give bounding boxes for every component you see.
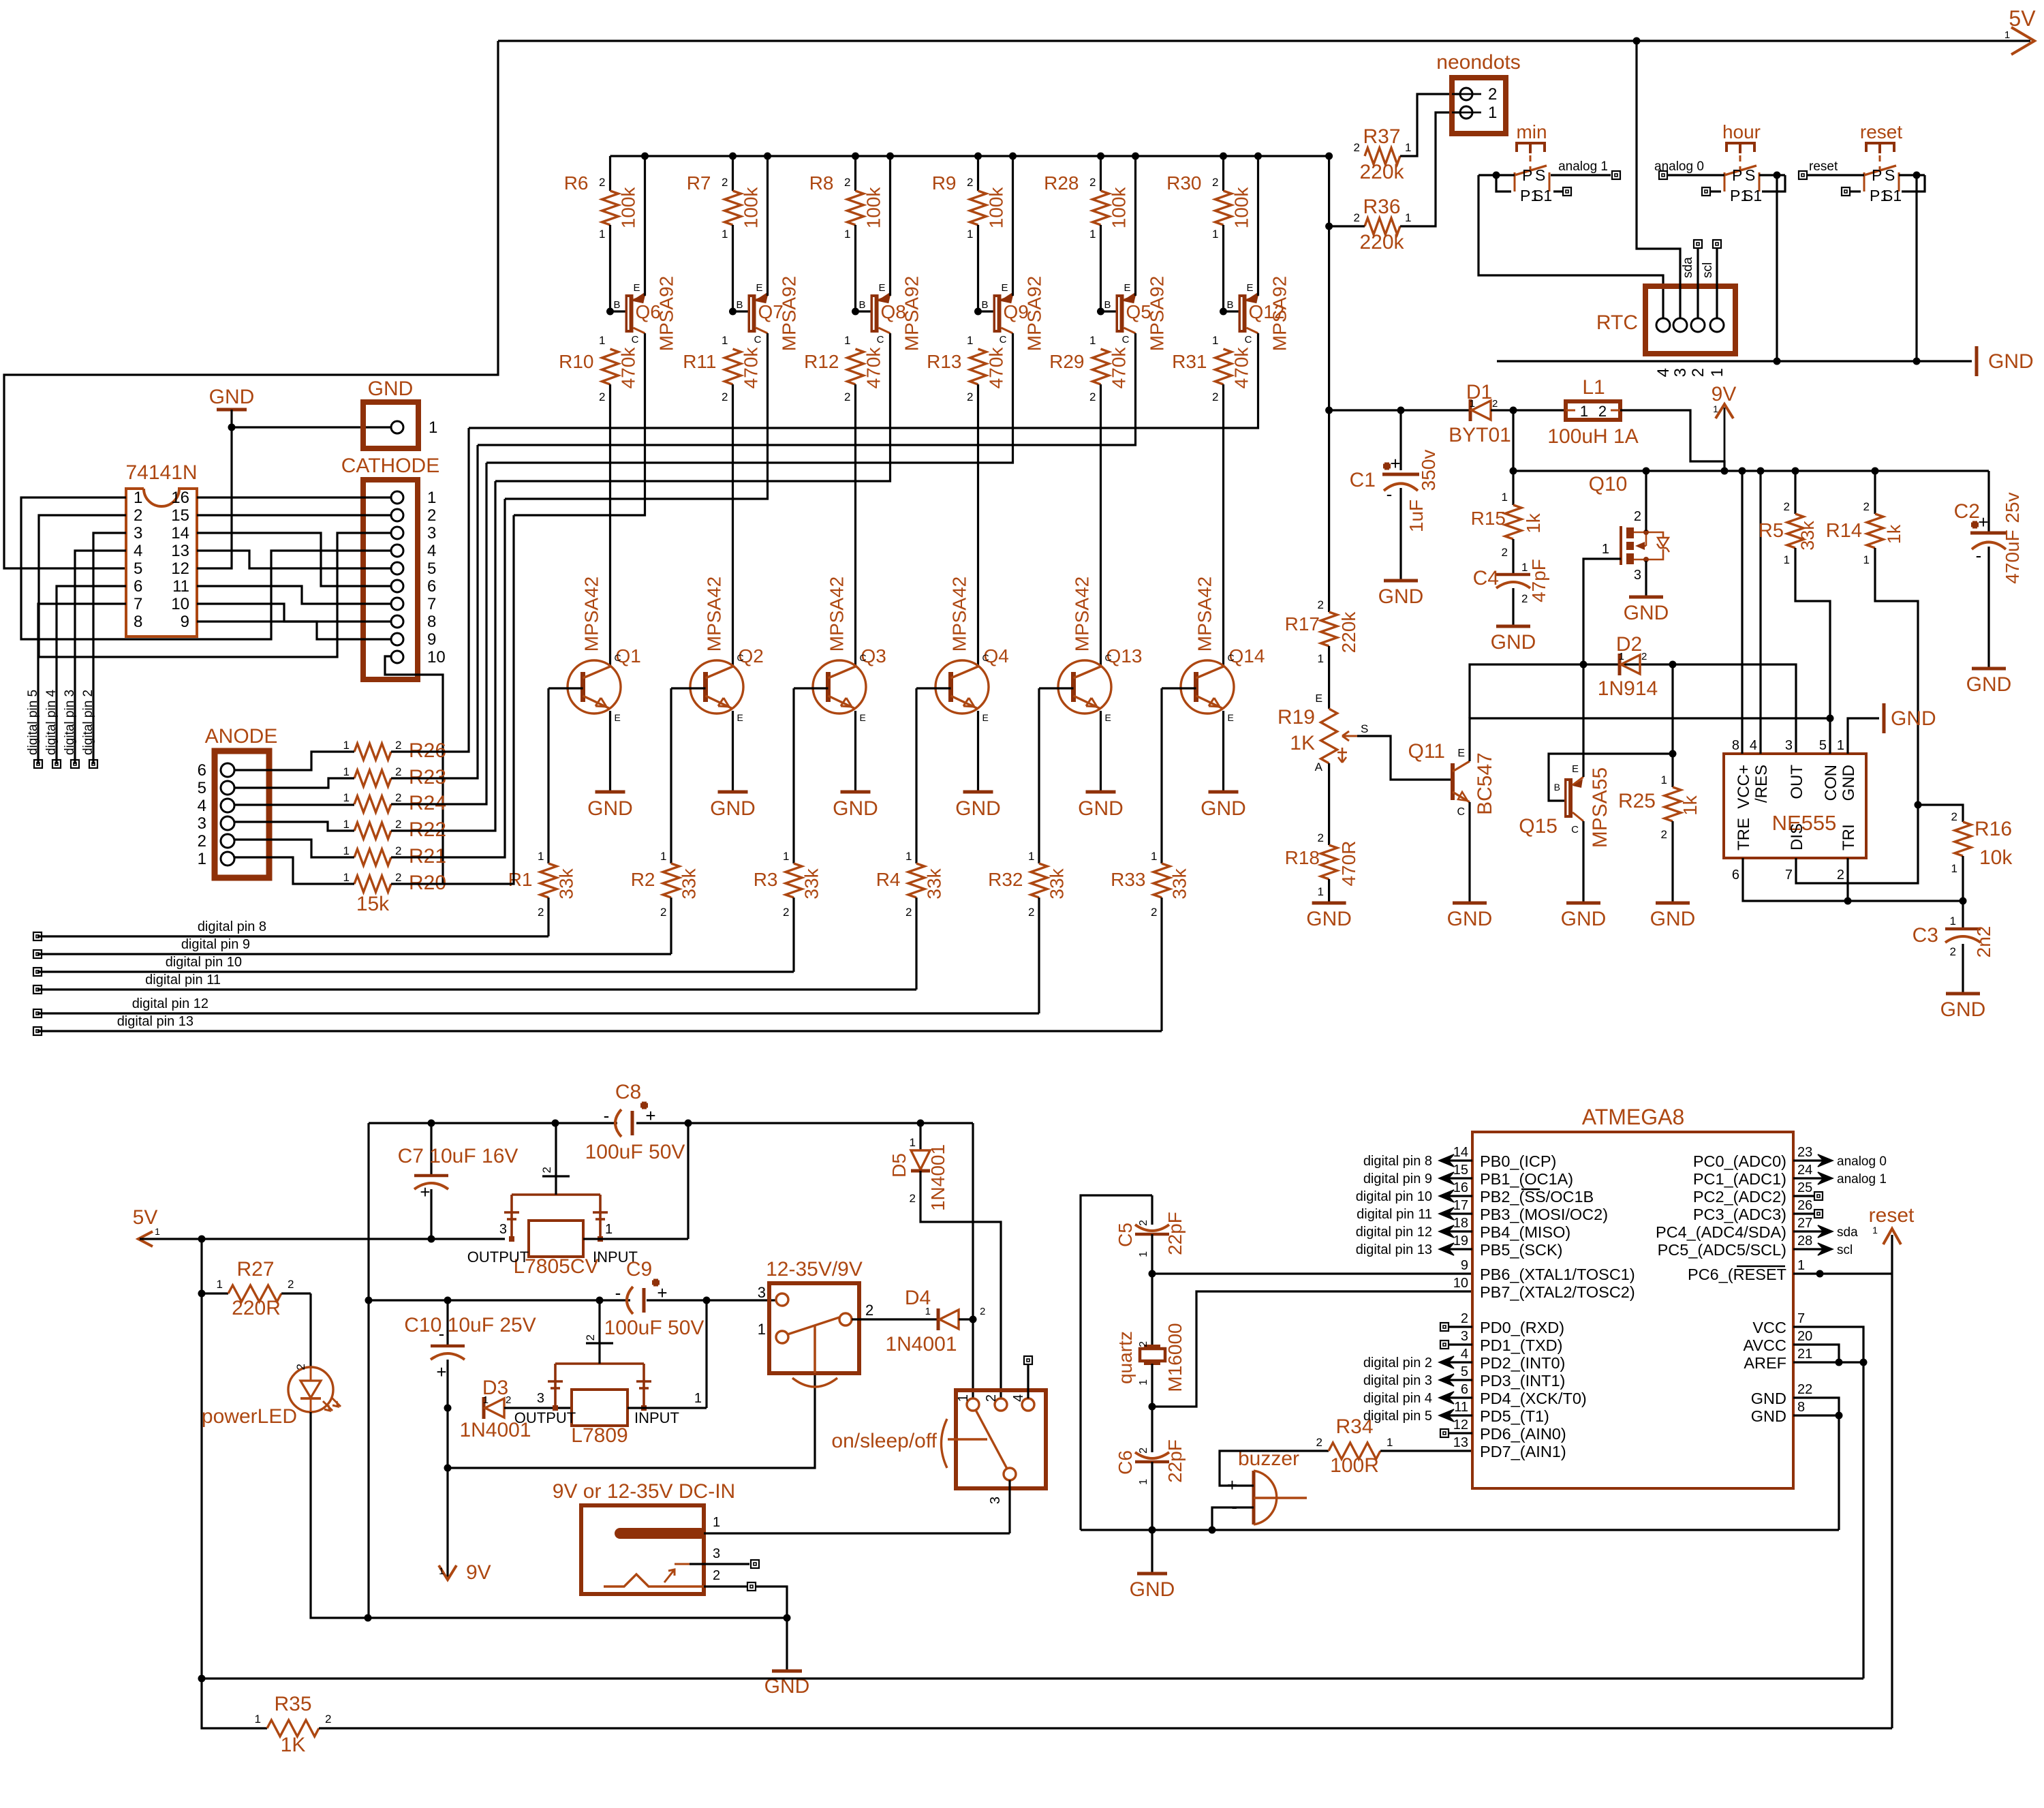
svg-text:1: 1 xyxy=(1872,1225,1878,1236)
svg-text:4: 4 xyxy=(1654,368,1673,377)
node digital pin 8 pad xyxy=(33,932,42,940)
svg-text:MPSA92: MPSA92 xyxy=(1024,276,1045,352)
svg-text:2: 2 xyxy=(395,765,401,778)
svg-text:-: - xyxy=(1976,545,1982,566)
wire C8 rail xyxy=(369,1122,617,1124)
wire powerLED to bottom rail xyxy=(311,1412,787,1618)
svg-text:analog 1: analog 1 xyxy=(1837,1172,1887,1186)
svg-text:C2: C2 xyxy=(1954,500,1980,523)
svg-text:2: 2 xyxy=(910,1192,916,1205)
transistor Q4 MPSA42 xyxy=(935,660,989,714)
node PC3 pad xyxy=(1793,1212,1814,1214)
svg-text:S: S xyxy=(1361,722,1368,735)
svg-text:100k: 100k xyxy=(863,187,884,229)
wire GND pins to rail xyxy=(1793,1398,1839,1530)
svg-text:28: 28 xyxy=(1797,1234,1812,1248)
transistor Q14 MPSA42 xyxy=(1181,660,1234,714)
svg-text:GND: GND xyxy=(587,797,633,820)
wire digital pin 10 row xyxy=(37,970,794,972)
svg-text:B: B xyxy=(1226,299,1233,311)
svg-text:MPSA42: MPSA42 xyxy=(704,577,725,652)
svg-text:scl: scl xyxy=(1837,1243,1853,1257)
wire emitter Q7 xyxy=(764,153,771,160)
svg-text:R25: R25 xyxy=(1618,790,1656,812)
resistor R2 33k xyxy=(670,688,672,863)
svg-text:S: S xyxy=(1535,166,1545,184)
svg-text:R35: R35 xyxy=(274,1693,311,1715)
wire R23 to anode bus xyxy=(391,445,478,778)
svg-text:22: 22 xyxy=(1797,1382,1812,1397)
svg-text:2: 2 xyxy=(1138,1220,1149,1226)
svg-text:4: 4 xyxy=(1011,1394,1026,1402)
svg-text:CATHODE: CATHODE xyxy=(341,455,439,477)
svg-text:PC5_(ADC5/SCL): PC5_(ADC5/SCL) xyxy=(1658,1241,1786,1259)
wire buzzer plus to R34 xyxy=(1220,1451,1329,1486)
svg-text:R36: R36 xyxy=(1363,196,1400,218)
transistor Q13 MPSA42 xyxy=(1058,660,1111,714)
supply arrow reset xyxy=(1883,1229,1901,1244)
wire Q11 emitter to CON row xyxy=(1470,718,1830,761)
resistor R15 1k xyxy=(1512,471,1514,505)
svg-text:GND: GND xyxy=(955,797,1001,820)
wire emitter Q6 xyxy=(641,153,649,160)
wire digital pin 5 xyxy=(38,604,126,764)
svg-text:22pF: 22pF xyxy=(1164,1212,1186,1255)
svg-text:R31: R31 xyxy=(1172,351,1207,372)
svg-text:TRE: TRE xyxy=(1735,818,1753,851)
diode D4 1N4001 xyxy=(937,1308,940,1330)
svg-text:2: 2 xyxy=(325,1713,331,1726)
svg-text:MPSA42: MPSA42 xyxy=(581,577,602,652)
wire emitter Q5 xyxy=(1132,153,1139,160)
svg-text:analog 0: analog 0 xyxy=(1837,1154,1887,1169)
svg-text:1: 1 xyxy=(1661,773,1667,786)
resistor R21 xyxy=(354,849,391,865)
svg-text:10: 10 xyxy=(171,595,189,613)
svg-text:3: 3 xyxy=(198,814,206,833)
ground NE555 pin1 xyxy=(1883,703,1886,733)
svg-text:9V: 9V xyxy=(1712,383,1737,405)
svg-text:11: 11 xyxy=(1454,1400,1468,1415)
capacitor C1 1uF 350v xyxy=(1397,407,1405,414)
svg-text:220k: 220k xyxy=(1359,231,1404,254)
svg-text:12: 12 xyxy=(171,560,189,578)
svg-text:470k: 470k xyxy=(1109,347,1130,389)
svg-text:digital pin 11: digital pin 11 xyxy=(145,972,221,987)
svg-text:2: 2 xyxy=(1951,810,1957,823)
resistor R20 15k xyxy=(354,876,391,892)
svg-text:1: 1 xyxy=(1405,211,1411,224)
wire HV node row xyxy=(1325,407,1333,414)
wire base Q1 xyxy=(548,687,583,689)
diode D1 BYT01 xyxy=(1469,399,1472,421)
wire switch pin 4 pad xyxy=(1027,1365,1029,1398)
wire anode pin 4 to R24 xyxy=(234,803,354,806)
svg-text:7: 7 xyxy=(134,595,142,613)
svg-text:1: 1 xyxy=(1488,104,1497,122)
svg-text:1: 1 xyxy=(427,489,436,507)
wire buzzer minus to ground xyxy=(1212,1507,1254,1530)
svg-text:OUT: OUT xyxy=(1788,765,1806,799)
svg-text:E: E xyxy=(1124,282,1130,294)
svg-text:BC547: BC547 xyxy=(1474,752,1496,815)
svg-text:S1: S1 xyxy=(1743,187,1762,204)
svg-text:R33: R33 xyxy=(1111,869,1145,890)
wire 5V top rail xyxy=(498,40,2030,42)
wire anode pin 5 to R23 xyxy=(234,778,354,788)
svg-text:2: 2 xyxy=(540,1167,553,1173)
wire reset net to reset P xyxy=(1799,171,1807,179)
svg-text:TRI: TRI xyxy=(1840,824,1858,851)
svg-text:min: min xyxy=(1516,121,1547,142)
svg-text:C: C xyxy=(1000,334,1007,346)
wire reset S to ground rail xyxy=(1899,174,1925,176)
node PD1 pad xyxy=(1449,1343,1472,1345)
svg-text:R19: R19 xyxy=(1277,706,1315,729)
resistor R1 33k xyxy=(547,688,549,863)
svg-text:C: C xyxy=(877,334,884,346)
wire switch pin 3 to rail xyxy=(1008,1480,1010,1533)
svg-text:reset: reset xyxy=(1869,1204,1915,1227)
wire 5V row to regulator output xyxy=(140,1238,505,1240)
svg-text:1: 1 xyxy=(1784,553,1790,566)
svg-text:1: 1 xyxy=(1619,651,1624,662)
resistor R7 100k xyxy=(732,156,734,191)
svg-text:2: 2 xyxy=(427,506,436,525)
wire emitter Q3 to ground xyxy=(854,711,856,792)
svg-text:digital pin 3: digital pin 3 xyxy=(1363,1373,1432,1388)
svg-text:C3: C3 xyxy=(1913,924,1938,947)
IC 74141N xyxy=(126,489,197,637)
wire digital pin 3 xyxy=(75,551,126,764)
svg-text:1: 1 xyxy=(134,489,142,507)
svg-text:R15: R15 xyxy=(1471,508,1506,529)
svg-text:16: 16 xyxy=(171,489,189,507)
svg-text:6: 6 xyxy=(134,577,142,596)
svg-text:1: 1 xyxy=(967,228,973,241)
svg-text:PD0_(RXD): PD0_(RXD) xyxy=(1480,1319,1564,1336)
wire digital pin 8 row xyxy=(37,935,548,937)
svg-text:5: 5 xyxy=(427,560,436,578)
wire digital pin 9 stub xyxy=(1442,1177,1472,1179)
wire NE555 GND to ground xyxy=(1848,718,1879,754)
svg-text:100uF 50V: 100uF 50V xyxy=(585,1141,685,1163)
resistor R37 220k xyxy=(1365,148,1400,164)
svg-text:quartz: quartz xyxy=(1115,1331,1136,1384)
svg-text:1: 1 xyxy=(429,418,437,437)
svg-text:B: B xyxy=(736,299,743,311)
svg-text:PD4_(XCK/T0): PD4_(XCK/T0) xyxy=(1480,1390,1587,1407)
svg-text:E: E xyxy=(878,282,885,294)
button reset actuator xyxy=(1866,143,1894,153)
svg-text:C: C xyxy=(1122,334,1130,346)
svg-text:9V or 12-35V DC-IN: 9V or 12-35V DC-IN xyxy=(553,1480,735,1503)
wire base Q2 xyxy=(671,687,706,689)
svg-text:15: 15 xyxy=(171,506,189,525)
svg-text:13: 13 xyxy=(1453,1435,1468,1450)
svg-text:220k: 220k xyxy=(1338,611,1359,654)
svg-text:digital pin 9: digital pin 9 xyxy=(181,937,250,952)
svg-text:-: - xyxy=(1387,484,1393,504)
svg-text:1: 1 xyxy=(758,1321,766,1338)
svg-text:digital pin 5: digital pin 5 xyxy=(1363,1409,1432,1424)
svg-text:Q10: Q10 xyxy=(1589,473,1628,495)
svg-text:3: 3 xyxy=(537,1391,544,1406)
wire Q10 source to ground xyxy=(1645,561,1647,597)
resistor R31 470k xyxy=(1215,349,1232,384)
svg-text:3: 3 xyxy=(988,1497,1003,1504)
wire 74141 pin15 to cathode 2 xyxy=(197,514,391,516)
crystal quartz M16000 xyxy=(1151,1274,1153,1346)
wire jack pin 3 pad xyxy=(690,1563,749,1565)
svg-text:27: 27 xyxy=(1797,1216,1812,1231)
svg-text:1: 1 xyxy=(1089,228,1096,241)
wire emitter Q4 to ground xyxy=(977,711,979,792)
node digital pin 3 pad xyxy=(71,760,79,768)
svg-text:2: 2 xyxy=(1354,141,1360,154)
switch 12-35V/9V xyxy=(769,1283,859,1373)
svg-text:GND: GND xyxy=(1561,908,1607,930)
svg-text:OUTPUT: OUTPUT xyxy=(467,1248,529,1266)
svg-text:2: 2 xyxy=(198,832,206,851)
svg-text:-: - xyxy=(439,1323,445,1344)
svg-text:Q15: Q15 xyxy=(1519,815,1558,838)
wire emitter Q8 xyxy=(886,153,894,160)
wire 5V drop to 74141 VCC pin 5 xyxy=(4,41,498,568)
capacitor C8 100uF 50V xyxy=(615,1109,621,1137)
resistor R6 100k xyxy=(609,156,611,191)
svg-text:1: 1 xyxy=(343,791,350,804)
svg-text:R3: R3 xyxy=(754,869,778,890)
wire Q15 collector to ground xyxy=(1582,821,1584,903)
svg-text:PC6_(RESET: PC6_(RESET xyxy=(1688,1266,1786,1283)
wire anode pin 6 to R26 xyxy=(234,752,354,770)
svg-text:2: 2 xyxy=(967,390,973,403)
svg-text:scl: scl xyxy=(1701,262,1715,278)
svg-text:PC2_(ADC2): PC2_(ADC2) xyxy=(1693,1188,1786,1206)
svg-text:25v: 25v xyxy=(2002,492,2023,523)
svg-text:1: 1 xyxy=(439,1565,444,1576)
wire 5V vertical branch xyxy=(200,1239,202,1679)
svg-text:1: 1 xyxy=(1138,1379,1149,1385)
node digital pin 2 pad xyxy=(89,760,97,768)
svg-text:ATMEGA8: ATMEGA8 xyxy=(1582,1105,1685,1129)
wire jack pin 1 to switch pin 3 xyxy=(704,1532,1010,1534)
svg-text:1: 1 xyxy=(1089,334,1096,347)
svg-text:3: 3 xyxy=(427,524,436,542)
svg-text:reset: reset xyxy=(1809,159,1838,174)
svg-text:VCC+: VCC+ xyxy=(1735,765,1753,809)
wire emitter Q14 to ground xyxy=(1222,711,1224,792)
wire digital pin 13 stub xyxy=(1442,1248,1472,1250)
wire 74141 pin2 to cathode 3 xyxy=(39,515,391,657)
svg-text:2: 2 xyxy=(134,506,142,525)
svg-text:C: C xyxy=(632,334,639,346)
svg-text:reset: reset xyxy=(1860,121,1902,142)
wire R16 top xyxy=(1918,805,1963,822)
resistor R35 1K xyxy=(202,1679,267,1728)
svg-text:C4: C4 xyxy=(1473,567,1499,589)
wire 9V node to switch common xyxy=(448,1329,815,1468)
supply arrow 5V bottom left xyxy=(138,1231,153,1246)
svg-text:2: 2 xyxy=(395,739,401,752)
svg-text:1: 1 xyxy=(343,739,350,752)
svg-text:analog 0: analog 0 xyxy=(1654,159,1704,174)
ground below C1 xyxy=(1384,579,1418,583)
svg-text:1: 1 xyxy=(844,334,850,347)
svg-text:2: 2 xyxy=(1598,403,1607,420)
svg-text:1: 1 xyxy=(343,871,350,884)
resistor R14 1k xyxy=(1874,471,1876,514)
svg-text:1: 1 xyxy=(1212,334,1218,347)
svg-text:1: 1 xyxy=(605,1222,613,1237)
wire PC6 to reset net xyxy=(1793,1272,1892,1274)
svg-text:5V: 5V xyxy=(133,1206,158,1229)
svg-text:4: 4 xyxy=(198,797,206,815)
button hour actuator xyxy=(1726,143,1754,153)
svg-text:47pF: 47pF xyxy=(1528,559,1549,602)
potentiometer R19 1K xyxy=(1321,709,1337,763)
svg-text:1: 1 xyxy=(660,850,666,863)
svg-text:2: 2 xyxy=(1784,500,1790,513)
resistor R28 100k xyxy=(1100,156,1102,191)
wire collector Q5 to anode bus xyxy=(478,333,1136,445)
svg-text:C: C xyxy=(1228,652,1235,663)
svg-text:R27: R27 xyxy=(236,1258,274,1281)
svg-text:B: B xyxy=(1554,782,1560,793)
svg-text:digital pin 13: digital pin 13 xyxy=(1356,1242,1432,1257)
svg-text:2: 2 xyxy=(395,844,401,857)
wire D2 row xyxy=(1470,664,1583,718)
svg-text:7: 7 xyxy=(1785,868,1793,883)
ground below Q10 xyxy=(1629,596,1663,599)
supply arrow 5V top right xyxy=(2011,27,2034,55)
svg-text:2: 2 xyxy=(395,871,401,884)
node digital pin 11 pad xyxy=(33,985,42,994)
wire R26 to anode bus xyxy=(391,428,469,752)
wire 74141 pin13 to cathode 5 xyxy=(197,551,391,568)
capacitor C4 47pF xyxy=(1496,573,1530,577)
svg-text:sda: sda xyxy=(1681,257,1695,278)
svg-text:GND: GND xyxy=(209,386,255,408)
svg-text:9: 9 xyxy=(181,613,189,631)
svg-text:digital pin 3: digital pin 3 xyxy=(63,690,77,755)
svg-text:33k: 33k xyxy=(1169,868,1190,899)
svg-text:1: 1 xyxy=(599,228,605,241)
svg-text:1: 1 xyxy=(2004,29,2010,41)
svg-text:6: 6 xyxy=(427,577,436,596)
svg-text:1: 1 xyxy=(1405,141,1411,154)
svg-text:2: 2 xyxy=(1950,945,1956,958)
svg-text:E: E xyxy=(1246,282,1253,294)
svg-text:1: 1 xyxy=(1951,862,1957,875)
svg-text:S: S xyxy=(1885,166,1895,184)
svg-text:C5: C5 xyxy=(1115,1223,1136,1247)
svg-text:C: C xyxy=(1571,824,1579,836)
svg-text:E: E xyxy=(1315,693,1322,705)
svg-text:1: 1 xyxy=(1138,1479,1149,1485)
svg-text:C: C xyxy=(1105,652,1112,663)
svg-text:R1: R1 xyxy=(508,869,533,890)
svg-text:GND: GND xyxy=(1447,908,1493,930)
svg-text:1: 1 xyxy=(343,844,350,857)
svg-text:GND: GND xyxy=(1751,1390,1786,1407)
wire sda out xyxy=(1793,1230,1825,1232)
svg-text:220k: 220k xyxy=(1359,161,1404,183)
svg-text:C6: C6 xyxy=(1115,1450,1136,1475)
wire R20 to anode bus xyxy=(391,515,514,884)
svg-text:2: 2 xyxy=(1028,906,1034,919)
svg-text:1: 1 xyxy=(910,1136,916,1149)
svg-text:MPSA92: MPSA92 xyxy=(779,276,800,352)
svg-text:PB5_(SCK): PB5_(SCK) xyxy=(1480,1241,1562,1259)
svg-text:4: 4 xyxy=(427,542,436,560)
ground below C4 xyxy=(1496,625,1530,628)
resistor R4 33k xyxy=(915,688,917,863)
svg-text:PD7_(AIN1): PD7_(AIN1) xyxy=(1480,1443,1566,1460)
svg-text:1: 1 xyxy=(255,1713,261,1726)
svg-text:3: 3 xyxy=(1785,738,1793,753)
svg-text:S1: S1 xyxy=(1533,187,1552,204)
svg-text:4: 4 xyxy=(1461,1347,1468,1362)
svg-text:2: 2 xyxy=(599,390,605,403)
svg-text:6: 6 xyxy=(1461,1382,1468,1397)
svg-text:PB0_(ICP): PB0_(ICP) xyxy=(1480,1152,1556,1170)
svg-text:1: 1 xyxy=(1863,553,1870,566)
svg-text:E: E xyxy=(737,712,743,723)
svg-text:1: 1 xyxy=(538,850,544,863)
svg-text:S: S xyxy=(1745,166,1755,184)
svg-text:5: 5 xyxy=(1461,1364,1468,1379)
diode D2 1N914 xyxy=(1618,654,1622,675)
ground below C6 xyxy=(1151,1530,1153,1574)
svg-text:8: 8 xyxy=(1797,1400,1805,1415)
IC ATMEGA8 xyxy=(1472,1132,1793,1488)
svg-text:2: 2 xyxy=(1089,176,1096,189)
switch on/sleep/off xyxy=(956,1390,1046,1488)
wire digital pin 10 stub xyxy=(1442,1195,1472,1197)
svg-text:digital pin 8: digital pin 8 xyxy=(1363,1154,1432,1169)
svg-text:5V: 5V xyxy=(2009,6,2036,31)
svg-text:R11: R11 xyxy=(683,351,716,372)
wire scl out xyxy=(1793,1248,1825,1250)
svg-text:PC0_(ADC0): PC0_(ADC0) xyxy=(1693,1152,1786,1170)
ground below Q14 xyxy=(1209,791,1239,794)
wire digital pin 5 stub xyxy=(1442,1414,1472,1416)
wire D1 to L1 xyxy=(1491,409,1566,411)
svg-text:1k: 1k xyxy=(1884,524,1904,544)
connector 9V or 12-35V DC-IN jack xyxy=(581,1505,704,1594)
svg-text:5: 5 xyxy=(134,560,142,578)
wire digital pin 11 stub xyxy=(1442,1212,1472,1214)
wire PB7 row xyxy=(1149,1403,1156,1411)
svg-text:470k: 470k xyxy=(863,347,884,389)
transistor Q6 MPSA92 xyxy=(606,308,614,316)
svg-text:PD6_(AIN0): PD6_(AIN0) xyxy=(1480,1425,1566,1443)
wire R5 to NE555 CON xyxy=(1795,548,1830,754)
svg-text:23: 23 xyxy=(1797,1145,1812,1160)
svg-text:33k: 33k xyxy=(801,868,822,899)
svg-text:1: 1 xyxy=(599,334,605,347)
svg-text:2: 2 xyxy=(1212,390,1218,403)
wire analog 0 to hour P xyxy=(1659,171,1667,179)
wire sda xyxy=(1697,248,1699,318)
svg-text:R18: R18 xyxy=(1285,847,1320,868)
svg-text:6: 6 xyxy=(198,761,206,780)
wire scl xyxy=(1716,248,1718,318)
wire button ground rail xyxy=(1497,360,1972,362)
wire mcu ground rail xyxy=(1081,1529,1839,1531)
